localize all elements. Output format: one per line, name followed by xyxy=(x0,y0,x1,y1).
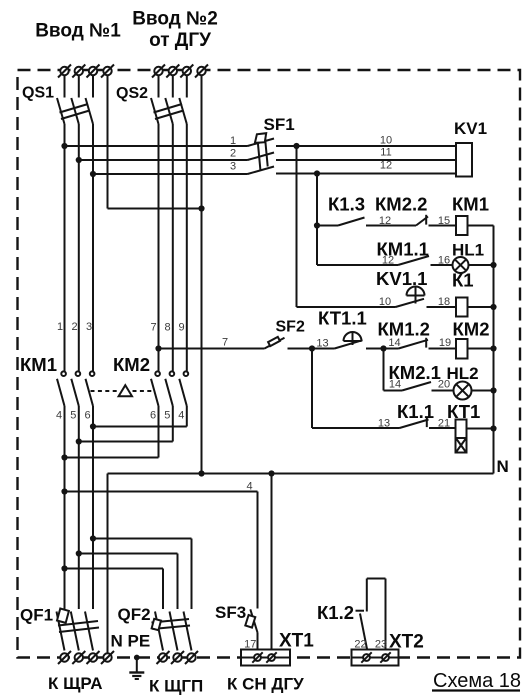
svg-text:QS2: QS2 xyxy=(116,85,148,102)
svg-text:ХТ1: ХТ1 xyxy=(279,631,314,652)
svg-text:8: 8 xyxy=(164,322,170,334)
svg-text:К1.3: К1.3 xyxy=(328,194,365,215)
svg-text:2: 2 xyxy=(230,148,236,160)
svg-text:10: 10 xyxy=(379,296,391,308)
svg-text:17: 17 xyxy=(244,639,256,651)
svg-text:SF2: SF2 xyxy=(276,319,305,336)
svg-text:4: 4 xyxy=(178,410,184,422)
svg-text:К ЩРА: К ЩРА xyxy=(48,674,103,693)
svg-text:QF2: QF2 xyxy=(118,605,151,624)
svg-text:13: 13 xyxy=(378,418,390,430)
svg-text:10: 10 xyxy=(380,135,392,147)
svg-text:КТ1.1: КТ1.1 xyxy=(318,308,367,329)
svg-text:N PE: N PE xyxy=(111,632,151,651)
svg-text:21: 21 xyxy=(438,418,450,430)
svg-text:11: 11 xyxy=(380,147,391,159)
svg-text:Схема 18: Схема 18 xyxy=(433,670,521,692)
svg-text:КМ1: КМ1 xyxy=(452,194,489,215)
svg-text:15: 15 xyxy=(438,215,450,227)
svg-text:19: 19 xyxy=(439,337,451,349)
svg-text:К1: К1 xyxy=(452,270,474,291)
svg-text:18: 18 xyxy=(438,296,450,308)
svg-text:7: 7 xyxy=(222,337,228,349)
svg-text:SF1: SF1 xyxy=(264,115,295,134)
svg-text:12: 12 xyxy=(382,255,394,267)
svg-text:Ввод №2: Ввод №2 xyxy=(132,9,218,30)
svg-text:16: 16 xyxy=(438,255,450,267)
svg-text:4: 4 xyxy=(56,410,62,422)
svg-text:KV1.1: KV1.1 xyxy=(376,268,427,289)
svg-text:5: 5 xyxy=(70,410,76,422)
svg-text:SF3: SF3 xyxy=(215,603,246,622)
svg-text:QS1: QS1 xyxy=(22,85,54,102)
svg-text:6: 6 xyxy=(84,410,90,422)
svg-text:КМ1.2: КМ1.2 xyxy=(378,319,430,340)
svg-text:3: 3 xyxy=(230,161,236,173)
svg-text:ХТ2: ХТ2 xyxy=(389,632,424,653)
svg-text:3: 3 xyxy=(86,321,92,333)
svg-text:4: 4 xyxy=(246,481,252,493)
svg-text:от ДГУ: от ДГУ xyxy=(149,30,211,51)
svg-text:КТ1: КТ1 xyxy=(447,401,480,422)
svg-text:К СН ДГУ: К СН ДГУ xyxy=(227,675,304,694)
svg-text:QF1: QF1 xyxy=(20,606,53,625)
svg-text:HL2: HL2 xyxy=(447,364,479,383)
svg-text:2: 2 xyxy=(71,321,77,333)
svg-text:23: 23 xyxy=(375,639,387,651)
svg-text:HL1: HL1 xyxy=(452,241,484,260)
svg-text:К1.1: К1.1 xyxy=(397,401,434,422)
svg-text:1: 1 xyxy=(57,321,63,333)
svg-text:1: 1 xyxy=(230,135,236,147)
svg-text:9: 9 xyxy=(178,322,184,334)
svg-text:22: 22 xyxy=(354,639,366,651)
svg-text:14: 14 xyxy=(388,337,400,349)
svg-text:14: 14 xyxy=(389,379,401,391)
svg-text:13: 13 xyxy=(316,338,328,350)
svg-text:12: 12 xyxy=(379,215,391,227)
svg-text:КМ1: КМ1 xyxy=(20,354,57,375)
svg-text:Ввод №1: Ввод №1 xyxy=(35,21,121,42)
svg-text:5: 5 xyxy=(164,410,170,422)
svg-text:7: 7 xyxy=(150,322,156,334)
svg-text:К ЩГП: К ЩГП xyxy=(149,677,203,696)
svg-text:N: N xyxy=(497,457,509,476)
svg-text:КМ2: КМ2 xyxy=(453,319,490,340)
svg-text:К1.2: К1.2 xyxy=(317,602,354,623)
svg-text:КМ2.2: КМ2.2 xyxy=(375,194,427,215)
svg-text:12: 12 xyxy=(380,160,392,172)
svg-text:20: 20 xyxy=(438,379,450,391)
svg-text:KV1: KV1 xyxy=(454,119,487,138)
svg-text:6: 6 xyxy=(150,410,156,422)
svg-text:КМ2: КМ2 xyxy=(113,354,150,375)
